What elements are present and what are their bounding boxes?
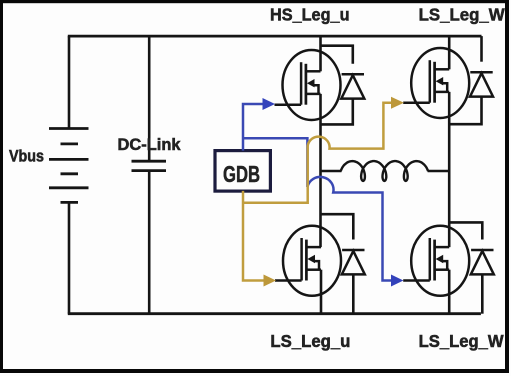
- bottom rail wire (DC bus -): [68, 312, 481, 315]
- svg-text:HS_Leg_u: HS_Leg_u: [270, 5, 350, 25]
- wire: phase node right (inductor to right leg): [428, 170, 450, 173]
- MOSFET HS_Leg_u (top left): [275, 50, 341, 120]
- svg-text:LS_Leg_W: LS_Leg_W: [419, 331, 504, 351]
- svg-text:LS_Leg_u: LS_Leg_u: [270, 331, 350, 351]
- gold arrow at LS_Leg_W top gate: [391, 97, 404, 109]
- GDB box: [215, 151, 270, 192]
- wire: diode branch bottom of LS_Leg_u to rail: [352, 274, 355, 313]
- capacitor DC-Link: [132, 161, 167, 170]
- wire: phase node left (leg midpoint to inductor): [321, 170, 342, 173]
- svg-text:DC-Link: DC-Link: [118, 136, 182, 154]
- wire: diode loop top of LS_Leg_u: [321, 214, 353, 239]
- wire: diode branch bottom of LS_Leg_W bottom to rail: [481, 274, 484, 313]
- gold gate wire: GDB to LS_Leg_u gate: [243, 191, 264, 281]
- wire: right leg upper segment (rail to LS_Leg_W top drain): [448, 36, 451, 69]
- blue arrow at HS_Leg_u gate: [263, 98, 276, 110]
- wire: DC-Link top lead: [148, 36, 151, 160]
- wire: diode loop bottom of LS_Leg_W top: [449, 97, 481, 125]
- wire: right leg lower segment to bottom rail: [448, 270, 451, 314]
- gold arrow at LS_Leg_u gate: [264, 275, 277, 287]
- MOSFET LS_Leg_u (bottom left): [275, 226, 341, 296]
- body diode of HS_Leg_u: [341, 74, 364, 98]
- blue gate wire: GDB to HS_Leg_u gate: [243, 104, 264, 151]
- wire: diode loop top of LS_Leg_W bottom: [449, 222, 482, 239]
- svg-text:GDB: GDB: [223, 161, 260, 187]
- wire: diode branch top of LS_Leg_W (from top rail): [480, 36, 483, 62]
- wire: left leg middle segment (HS_Leg_u source to LS_Leg_u drain): [319, 94, 322, 247]
- wire: left leg upper segment (rail to HS_Leg_u drain): [319, 36, 322, 71]
- body diode of LS_Leg_u: [342, 250, 365, 274]
- battery Vbus: [49, 129, 89, 203]
- gold gate wire: GDB to LS_Leg_W top gate (with hop): [243, 103, 392, 203]
- body diode of LS_Leg_W bottom: [471, 250, 494, 274]
- wire: left vertical from top rail to battery: [68, 36, 71, 128]
- blue arrow at LS_Leg_W bottom gate: [391, 275, 403, 287]
- wire: diode loop bottom of HS_Leg_u: [321, 99, 353, 125]
- wire: right leg middle segment: [448, 92, 451, 247]
- blue gate wire: GDB to LS_Leg_W bottom gate (with hop): [243, 138, 392, 280]
- svg-text:LS_Leg_W: LS_Leg_W: [419, 5, 505, 25]
- svg-text:Vbus: Vbus: [9, 148, 44, 166]
- MOSFET LS_Leg_W (bottom right): [403, 226, 469, 296]
- inductor (phase coil): [341, 161, 428, 181]
- top rail wire (DC bus +): [68, 35, 482, 38]
- wire: battery bottom to bottom rail: [68, 202, 71, 313]
- MOSFET LS_Leg_W (top right): [403, 48, 469, 118]
- wire: DC-Link bottom lead: [148, 172, 151, 314]
- body diode of LS_Leg_W top: [470, 72, 493, 96]
- wire: left leg lower segment (LS_Leg_u source to bottom rail): [320, 270, 323, 314]
- wire: diode loop top of HS_Leg_u: [321, 46, 353, 64]
